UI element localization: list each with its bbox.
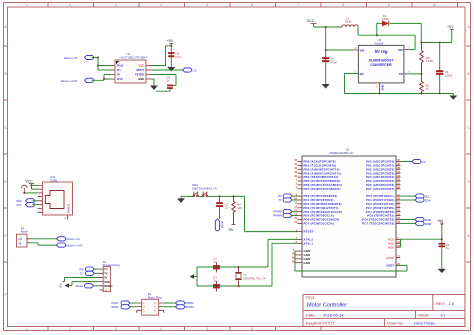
svg-text:3: 3 <box>115 327 117 331</box>
ground (crystal, left arrow) <box>190 274 198 279</box>
svg-text:Motor+ OUT: Motor+ OUT <box>66 244 83 248</box>
svg-text:PC4 (TDOPCINT20): PC4 (TDOPCINT20) <box>366 210 395 214</box>
ground (SW1) <box>177 198 185 203</box>
svg-text:FILTER: FILTER <box>135 73 144 77</box>
svg-text:2: 2 <box>69 3 71 7</box>
wire switch left to ground <box>181 196 193 198</box>
svg-text:PD2 (PCINTRXD1I26INT0): PD2 (PCINTRXD1I26INT0) <box>304 202 342 206</box>
svg-text:PA5 (ADC5PCINT5): PA5 (ADC5PCINT5) <box>366 179 395 183</box>
svg-text:IP+: IP+ <box>117 68 121 72</box>
U2 left pin stubs <box>111 66 116 80</box>
capacitor C9 <box>436 43 443 94</box>
netport RDIR (to P4) <box>112 305 131 309</box>
wire P1 pin1 to Motor+ IN <box>30 238 57 240</box>
svg-text:U2: U2 <box>127 52 131 56</box>
shield pin stub <box>67 215 69 220</box>
netport SCL <box>16 203 34 207</box>
svg-text:PA0 (ADC0PCINT0): PA0 (ADC0PCINT0) <box>366 160 395 164</box>
power arc flag (RJ45 aux supply) <box>22 185 28 193</box>
svg-text:TITLE:: TITLE: <box>306 296 316 300</box>
ground (C8) <box>167 67 175 72</box>
wire diode cathode to output rail <box>390 23 422 42</box>
svg-text:B: B <box>468 72 470 76</box>
wire FPWM from P4 <box>164 302 176 304</box>
wire P1 pin2 to Motor+ OUT <box>30 243 57 245</box>
svg-text:2: 2 <box>69 327 71 331</box>
frame column numbers top <box>26 3 436 7</box>
svg-text:RDIR: RDIR <box>112 305 119 309</box>
svg-text:AVCC: AVCC <box>386 256 394 260</box>
netport RX (to P2) <box>80 267 95 271</box>
capacitor C7 <box>322 57 329 62</box>
netport RX (to U1 PD0) <box>278 194 292 198</box>
svg-text:PD1 (PCINT25TXD0): PD1 (PCINT25TXD0) <box>304 198 334 202</box>
wire +5V output rail <box>421 31 452 43</box>
svg-text:VIN: VIN <box>360 48 365 52</box>
svg-text:5V: 5V <box>104 277 107 280</box>
svg-text:5V reg: 5V reg <box>375 49 388 54</box>
wire RPWM from P4 <box>164 306 176 308</box>
U1 pin 27 AVCC <box>386 255 401 259</box>
netport RPWM (to U1 PD5) <box>273 214 292 218</box>
resistor R2 <box>420 43 424 74</box>
wire C7 to ground <box>325 62 327 84</box>
svg-text:1: 1 <box>26 3 28 7</box>
svg-text:PC3 (PCINT19TMS): PC3 (PCINT19TMS) <box>366 206 395 210</box>
wire GND pin of U2 <box>151 79 154 86</box>
svg-text:TX: TX <box>278 198 282 202</box>
junction C2 tap <box>219 195 221 197</box>
svg-text:PA4 (ADC4PCINT4): PA4 (ADC4PCINT4) <box>366 175 395 179</box>
svg-text:PC2 (PCINT18TCK): PC2 (PCINT18TCK) <box>366 202 394 206</box>
netport TX (to P2) <box>80 271 95 275</box>
svg-text:Harry Thorpe: Harry Thorpe <box>414 321 435 325</box>
svg-text:PD5 (PCINT29OC1A): PD5 (PCINT29OC1A) <box>304 214 335 218</box>
P4 left pin stubs <box>137 303 142 310</box>
ground (P2, left arrow) <box>65 283 73 288</box>
svg-text:GND: GND <box>304 257 311 261</box>
junction VIN/C7 <box>325 49 327 51</box>
wire SCL to pin 6 <box>33 204 38 206</box>
svg-text:IP-: IP- <box>117 73 120 77</box>
wire VCC pins bus <box>400 239 402 247</box>
PJ1 pin stubs <box>38 185 43 212</box>
svg-text:+5V: +5V <box>59 283 63 288</box>
svg-text:1u: 1u <box>225 206 228 210</box>
wire VCC to RJ45 pins 1-2 <box>32 185 38 189</box>
ground (U1 supply) <box>438 269 446 273</box>
title block outline <box>303 295 465 327</box>
U1 pin 10 PD1 <box>294 198 333 202</box>
U1 pin 2 PB6 <box>296 183 342 187</box>
wire XTAL2 to top rail <box>197 239 298 267</box>
wire Reset to P2 <box>94 285 100 287</box>
wire 5V to P2 <box>65 278 100 282</box>
svg-text:PB0 (XCK0T0PCINT8): PB0 (XCK0T0PCINT8) <box>304 160 336 164</box>
svg-text:13.8K: 13.8K <box>426 59 433 63</box>
svg-text:4: 4 <box>160 327 162 331</box>
junction arc supply <box>23 192 25 194</box>
svg-text:PA7 (ADC7PCINT7): PA7 (ADC7PCINT7) <box>366 187 395 191</box>
U2 right pin stubs <box>146 66 151 80</box>
svg-text:Motor+ IN: Motor+ IN <box>66 237 79 241</box>
junction VCC node <box>441 238 443 240</box>
svg-text:Drawn By:: Drawn By: <box>387 321 404 325</box>
svg-text:6: 6 <box>251 327 253 331</box>
svg-text:REV:: REV: <box>436 301 445 306</box>
netport SDA (at U1) <box>415 198 430 203</box>
diode D1 SS34 <box>382 21 389 26</box>
wire AREF to GND loop <box>295 265 407 271</box>
wire GND pins bus <box>294 251 296 271</box>
U1 pin 24 PC5 <box>367 213 400 217</box>
svg-text:PC7 (TOSC2PCINT23): PC7 (TOSC2PCINT23) <box>362 222 394 226</box>
resistor R3 <box>420 74 424 94</box>
crystal Y1 <box>235 267 241 286</box>
netport Reset (to P2) <box>76 284 94 288</box>
junction SW/diode node <box>376 34 378 36</box>
power +5V flag (boost output) <box>447 25 454 31</box>
U3 pin 2 EN <box>354 69 364 75</box>
svg-text:Sheet:: Sheet: <box>418 312 430 317</box>
svg-text:5: 5 <box>206 327 208 331</box>
wire PC6 to FDIR port <box>401 219 416 221</box>
svg-text:CS: CS <box>422 160 426 164</box>
svg-text:B: B <box>5 72 7 76</box>
P4 pin 6 ground stub <box>163 310 165 313</box>
U1 pin 3 PB7 <box>296 187 341 191</box>
svg-text:1.0: 1.0 <box>449 301 455 306</box>
svg-text:10: 10 <box>432 3 436 7</box>
U1 pin 12 PD3 <box>294 206 338 210</box>
svg-text:GND: GND <box>304 249 311 253</box>
svg-text:PB3 (AIN6OC0APCINT11): PB3 (AIN6OC0APCINT11) <box>304 171 342 175</box>
connector P2 body <box>103 267 110 292</box>
svg-text:GND: GND <box>104 281 110 284</box>
svg-text:ACS712ELCTR-05B-T: ACS712ELCTR-05B-T <box>121 56 148 60</box>
U1 pin 42 PB2 <box>294 167 339 171</box>
svg-text:PB4 (SSOC0BPCINT12): PB4 (SSOC0BPCINT12) <box>304 175 339 179</box>
svg-text:6: 6 <box>251 3 253 7</box>
wire Motor+ OUT to IP- pins <box>92 75 111 81</box>
junction Motor+ IN <box>97 57 99 59</box>
svg-text:8: 8 <box>342 3 344 7</box>
svg-text:RPWM: RPWM <box>273 214 283 218</box>
svg-text:PB5 (PCINT13ICP3MOSI): PB5 (PCINT13ICP3MOSI) <box>304 179 341 183</box>
svg-text:Reset: Reset <box>220 221 224 228</box>
wire rail to output ground <box>452 94 454 96</box>
P4 right pin stubs <box>159 303 164 310</box>
wire VCC to L1 <box>314 26 342 28</box>
U1 pin 34 PA3 <box>366 171 401 175</box>
netport SDA <box>16 199 34 203</box>
wire FPWM to PD4 <box>292 211 298 213</box>
U1 pin 22 PC3 <box>366 206 401 210</box>
U1 pin 17 VCC <box>388 241 401 245</box>
U1 pin 36 PA1 <box>366 163 401 167</box>
svg-text:1n: 1n <box>167 79 170 83</box>
svg-text:F: F <box>5 293 7 297</box>
wire VIN <box>326 27 354 61</box>
junction C9 bottom <box>439 93 441 95</box>
junction IP+ branch <box>97 65 99 67</box>
U1 pin 1 PB5 <box>296 179 341 183</box>
svg-text:1u: 1u <box>446 246 449 250</box>
power +5V flag (P2, rotated) <box>59 282 65 289</box>
svg-text:RX: RX <box>104 268 108 271</box>
svg-text:PD6 (PCINT30OC2BICP): PD6 (PCINT30OC2BICP) <box>304 218 340 222</box>
netport TX (to U1 PD1) <box>278 198 292 202</box>
svg-text:EN: EN <box>360 72 364 76</box>
IC U1 ATMEGA644PA-AU body <box>302 156 396 277</box>
P1 pin stubs <box>27 239 30 243</box>
svg-text:IP-/2: IP-/2 <box>117 77 123 81</box>
svg-text:GND: GND <box>304 253 311 257</box>
U1 pin 13 PD4 <box>294 209 342 213</box>
svg-text:Motor Controller: Motor Controller <box>307 302 347 308</box>
U2 pin1 marker <box>116 61 119 64</box>
frame row ticks left <box>4 46 8 262</box>
inductor L1 <box>342 25 358 27</box>
U1 pin 14 PD5 <box>294 213 334 217</box>
U1 pin 41 PB1 <box>294 163 336 167</box>
switch SW1 contacts <box>193 192 208 197</box>
svg-text:AREF: AREF <box>386 264 394 268</box>
svg-text:ATMEGA644PA-AU: ATMEGA644PA-AU <box>329 151 354 155</box>
U1 pin 19 PC0 <box>366 194 400 198</box>
U1 pin 16 PD7 <box>294 221 334 225</box>
netport Motor+ IN (to U2) <box>64 55 94 60</box>
wire Motor+ IN to IP+ pins <box>92 58 111 71</box>
svg-text:+5V: +5V <box>447 25 454 29</box>
U1 pin 9 PD0 <box>296 194 338 198</box>
svg-text:RDIR: RDIR <box>425 222 432 226</box>
capacitor C2 <box>216 196 222 219</box>
svg-text:PD4 (PCINT284CK1OC1B): PD4 (PCINT284CK1OC1B) <box>304 210 343 214</box>
svg-text:47uF: 47uF <box>331 61 337 65</box>
svg-text:4: 4 <box>160 3 162 7</box>
netport FDIR (to P4) <box>112 301 131 305</box>
wire SDA to pin 5 <box>33 200 38 202</box>
U1 pin 38 VCC <box>388 245 401 249</box>
wire ground link left <box>196 267 198 286</box>
svg-text:1K: 1K <box>426 87 429 91</box>
IC U3 XL6009 body <box>358 45 404 83</box>
U3 pin 3 SW <box>398 46 411 52</box>
frame column ticks top <box>48 3 458 8</box>
power +5V flag (U2 supply) <box>167 39 174 46</box>
frame row letters right <box>467 25 470 238</box>
svg-text:GND: GND <box>138 77 144 81</box>
junction U3 GND on rail <box>379 93 381 95</box>
junction Y1 top <box>238 266 240 268</box>
svg-text:SHIELD: SHIELD <box>66 204 70 213</box>
U1 pin 15 PD6 <box>294 217 339 221</box>
P4 pin 5 ground stub <box>136 310 138 313</box>
junction FB node <box>421 73 423 75</box>
op-amp U2 ACS712 body <box>115 60 146 83</box>
svg-text:PA1 (ADC1PCINT1): PA1 (ADC1PCINT1) <box>366 164 395 168</box>
svg-text:+5V: +5V <box>167 39 174 43</box>
svg-text:2018-06-14: 2018-06-14 <box>323 312 344 317</box>
connector PJ1 RJ45 body <box>43 182 73 215</box>
svg-text:GND: GND <box>381 85 385 91</box>
svg-text:PA3 (ADC3PCINT3): PA3 (ADC3PCINT3) <box>366 171 395 175</box>
netport FDIR (at U1) <box>415 217 431 222</box>
netport RPWM (at P4) <box>176 305 195 309</box>
svg-text:XTAL1: XTAL1 <box>304 241 314 245</box>
svg-text:1u: 1u <box>213 259 216 263</box>
U1 pin 23 PC4 <box>366 209 401 213</box>
wire L1 to SW node <box>358 27 415 50</box>
U1 pin 7 XTAL2 <box>296 237 314 241</box>
junction IP- branch <box>103 78 105 80</box>
U1 pin 37 PA0 <box>366 159 401 163</box>
wire U3 GND stub to rail <box>379 87 381 94</box>
svg-text:CS: CS <box>193 68 197 72</box>
svg-text:FB: FB <box>399 72 403 76</box>
junction C9 top <box>439 42 441 44</box>
U3 pin 1 GND <box>376 83 385 91</box>
RJ45 jack outline <box>46 191 65 209</box>
svg-text:EasyEDA V5.5.12: EasyEDA V5.5.12 <box>306 321 335 325</box>
U1 pin 31 PA6 <box>366 183 401 187</box>
svg-text:7: 7 <box>297 327 299 331</box>
svg-text:PB2 (AIN0INT2PCINT10): PB2 (AIN0INT2PCINT10) <box>304 167 340 171</box>
U1 pin 32 PA5 <box>366 179 401 183</box>
junction VCC pin1 <box>31 184 33 186</box>
svg-text:RJ45: RJ45 <box>51 178 58 182</box>
power +5V flag (R4 pull-up) <box>228 224 236 231</box>
svg-text:0.1u: 0.1u <box>176 55 182 59</box>
capacitor C6 <box>167 85 173 89</box>
power VCC flag (boost input) <box>307 19 317 27</box>
svg-text:Motor+ OUT: Motor+ OUT <box>61 79 78 83</box>
svg-text:PA6 (ADC6PCINT6): PA6 (ADC6PCINT6) <box>366 183 395 187</box>
svg-text:1: 1 <box>26 327 28 331</box>
U1 pin 40 PB0 <box>294 159 335 163</box>
U1 pin 18 GND <box>292 253 311 257</box>
capacitor C3 <box>213 281 219 292</box>
wire GND to P2 <box>72 282 100 286</box>
wire RX <box>94 268 99 270</box>
svg-text:10K: 10K <box>237 206 242 210</box>
svg-text:XL6009: XL6009 <box>374 41 384 45</box>
svg-text:U3: U3 <box>378 38 382 42</box>
svg-text:SCL: SCL <box>16 203 22 207</box>
svg-text:IP+/2: IP+/2 <box>117 64 124 68</box>
netport FPWM (at P4) <box>176 301 195 305</box>
svg-text:PA2 (ADC2PCINT2): PA2 (ADC2PCINT2) <box>366 167 395 171</box>
svg-text:PC6 (TOSC1PCINT22): PC6 (TOSC1PCINT22) <box>362 218 394 222</box>
netport Motor+ IN (at P1) <box>57 237 80 242</box>
wire arc flag to RJ45 pin 3 <box>24 192 37 194</box>
U1 pin 5 VCC <box>388 237 400 241</box>
connector P1 body <box>17 234 28 247</box>
svg-text:VCC: VCC <box>139 64 145 68</box>
svg-text:SWITCH-6X6X5_TH: SWITCH-6X6X5_TH <box>192 186 217 190</box>
svg-text:VCC: VCC <box>388 238 394 242</box>
U1 pin 21 PC2 <box>366 202 400 206</box>
wire switch link <box>198 195 202 197</box>
U1 pin 4 RESET <box>296 229 314 233</box>
wire PA0 to CS port <box>401 161 413 163</box>
netport Reset (vertical, below C2) <box>215 219 224 231</box>
svg-text:PC0 (PCINT16SCL): PC0 (PCINT16SCL) <box>366 194 394 198</box>
svg-text:1u: 1u <box>213 278 216 282</box>
svg-text:VCC: VCC <box>388 245 394 249</box>
svg-text:SS34: SS34 <box>382 17 389 21</box>
U3 pin 4 VIN <box>354 46 364 52</box>
junction Y1 bottom <box>238 285 240 287</box>
svg-text:9: 9 <box>388 3 390 7</box>
svg-text:PD0 (PCINT24RXD0T3): PD0 (PCINT24RXD0T3) <box>304 194 338 198</box>
wire RX to PD0 <box>292 195 298 197</box>
U1 pin 8 XTAL1 <box>296 241 314 245</box>
netport FPWM (to U1 PD4) <box>273 210 292 214</box>
wire RDIR to P4 <box>130 306 137 308</box>
netport Motor+ OUT (to U2) <box>61 78 94 83</box>
junction C3 on rail <box>216 285 218 287</box>
frame row letters left <box>4 25 7 297</box>
svg-text:TX: TX <box>104 272 108 275</box>
ground (boost output) <box>449 96 457 100</box>
svg-text:PB1 (T1CLKOPCINT9): PB1 (T1CLKOPCINT9) <box>304 164 337 168</box>
resistor R4 <box>232 196 236 224</box>
U1 pin 43 PB3 <box>294 171 341 175</box>
svg-text:PB6 (PCINT14OC3AMISO): PB6 (PCINT14OC3AMISO) <box>304 183 343 187</box>
svg-text:1/1: 1/1 <box>440 312 446 317</box>
svg-text:PC5 (TDIPCINT21): PC5 (TDIPCINT21) <box>367 214 394 218</box>
P2 pin stubs <box>100 269 104 290</box>
svg-text:E: E <box>5 234 7 238</box>
U1 pin 26 PC7 <box>362 221 400 225</box>
capacitor C4 <box>213 262 219 273</box>
netport CS (from VIOUT) <box>183 68 197 73</box>
svg-text:5: 5 <box>206 3 208 7</box>
svg-text:VIOUT: VIOUT <box>136 68 144 72</box>
wire RPWM to PD5 <box>292 215 298 217</box>
U1 pin 33 PA4 <box>366 175 401 179</box>
wire PC0 to SCL port <box>401 195 416 197</box>
svg-text:+5V: +5V <box>437 219 444 223</box>
netport RDIR (at U1) <box>415 221 431 226</box>
U1 pin 44 PB4 <box>294 175 338 179</box>
wire switch to RESET net <box>208 196 298 231</box>
ground (C7) <box>322 84 330 89</box>
wire diode anode drop <box>377 23 382 35</box>
svg-text:RESET: RESET <box>304 230 314 234</box>
netport SCL (at U1) <box>415 194 430 199</box>
svg-text:E: E <box>468 234 470 238</box>
junction VCC/C7 branch <box>325 26 327 28</box>
power +5V flag (U1) <box>437 219 444 269</box>
U1 pin 11 PD2 <box>294 202 341 206</box>
netport Motor+ OUT (at P1) <box>57 243 84 248</box>
U1 pin 35 PA2 <box>366 167 401 171</box>
wire EN to ground rail <box>345 74 454 94</box>
U1 pin 39 GND <box>292 260 311 264</box>
svg-text:33uA: 33uA <box>345 20 351 24</box>
wire +5V to C8 and VCC <box>151 46 171 67</box>
U1 pin 6 GND <box>293 249 310 253</box>
svg-text:XTAL2: XTAL2 <box>304 238 314 242</box>
svg-text:PD7 (PCINT31OC2A): PD7 (PCINT31OC2A) <box>304 222 335 226</box>
junction output rail left <box>420 42 422 44</box>
svg-text:Motor: Motor <box>21 230 28 234</box>
svg-text:PD3 (PCINTXD127INT1): PD3 (PCINTXD127INT1) <box>304 206 339 210</box>
svg-text:GND: GND <box>304 261 311 265</box>
